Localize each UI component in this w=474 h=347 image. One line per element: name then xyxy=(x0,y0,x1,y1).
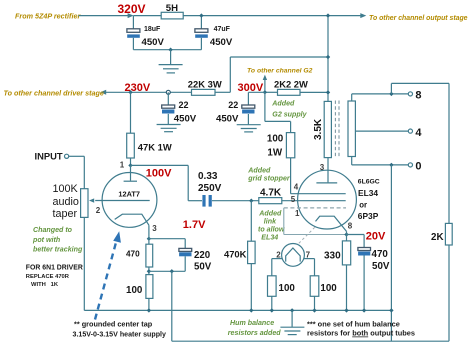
svg-text:100: 100 xyxy=(320,283,337,294)
node junction 22uF takeoff (ring) xyxy=(166,90,170,94)
wire ground rail xyxy=(84,309,391,311)
svg-text:To other channel driver stage: To other channel driver stage xyxy=(4,89,104,98)
svg-text:EL34: EL34 xyxy=(358,188,378,198)
svg-text:4.7K: 4.7K xyxy=(260,187,282,198)
svg-text:100: 100 xyxy=(126,285,143,296)
node junction 47K takeoff xyxy=(128,90,132,94)
wire hum pot left leg xyxy=(272,259,283,276)
svg-text:better tracking: better tracking xyxy=(33,245,83,253)
wire 100 to ground rail xyxy=(148,298,150,310)
tube 12AT7 plate xyxy=(124,165,137,181)
svg-text:resistors added: resistors added xyxy=(228,329,281,337)
label Added G2 supply xyxy=(271,99,307,118)
node junction rail right end xyxy=(389,308,393,312)
svg-text:WITH 1K: WITH 1K xyxy=(31,282,59,288)
svg-text:1: 1 xyxy=(295,209,300,218)
node junction feedback at 8 tap xyxy=(389,92,393,96)
svg-text:EL34: EL34 xyxy=(261,234,278,242)
transformer secondary winding xyxy=(348,101,355,157)
svg-text:22: 22 xyxy=(228,100,238,110)
svg-text:50V: 50V xyxy=(372,261,390,272)
node junction rail hum left xyxy=(270,308,274,312)
capacitor 18uF 450V xyxy=(127,16,165,50)
arrow to other channel G2 xyxy=(263,75,267,93)
svg-text:8: 8 xyxy=(348,222,353,231)
svg-text:3.5K: 3.5K xyxy=(313,118,324,140)
ground below first 22 cap xyxy=(157,125,181,132)
wire 12AT7 plate to coupling cap xyxy=(131,165,203,200)
resistor 470 cathode xyxy=(126,244,153,267)
svg-text:3.15V-0-3.15V heater supply: 3.15V-0-3.15V heater supply xyxy=(73,330,167,338)
wire G2 resistor to pin 4 grid xyxy=(291,158,346,194)
tube 6L6GC plate xyxy=(316,158,337,183)
svg-text:330: 330 xyxy=(324,250,341,261)
note one set of hum balance resistors xyxy=(307,319,415,337)
tube 12AT7 cathode xyxy=(115,214,149,225)
svg-text:taper: taper xyxy=(53,208,78,220)
svg-text:4: 4 xyxy=(415,127,422,139)
svg-text:*** one set of hum balance: *** one set of hum balance xyxy=(307,319,400,328)
wire B+ rail to choke xyxy=(133,15,161,17)
node junction rail 100 xyxy=(147,308,151,312)
label Added grid stopper xyxy=(247,167,291,183)
label FOR 6N1 DRIVER REPLACE 470R WITH 1K xyxy=(26,264,83,287)
tube 6L6GC cathode xyxy=(316,216,347,231)
svg-text:From 5Z4P rectifier: From 5Z4P rectifier xyxy=(15,12,81,21)
capacitor 22 450V first xyxy=(162,92,197,124)
node junction 12AT7 cathode xyxy=(147,237,151,241)
svg-text:** grounded center tap: ** grounded center tap xyxy=(74,319,153,328)
wire hum resistors to rail xyxy=(272,296,315,310)
svg-text:2K: 2K xyxy=(431,232,444,243)
svg-text:3: 3 xyxy=(320,163,325,172)
node junction rail hum right xyxy=(312,308,316,312)
resistor 330 cathode xyxy=(324,241,351,265)
label Changed to pot with better tracking xyxy=(32,226,83,253)
svg-text:audio: audio xyxy=(53,196,79,208)
wire G2 supply feed xyxy=(265,92,291,132)
svg-text:450V: 450V xyxy=(174,113,197,124)
svg-text:5H: 5H xyxy=(166,3,178,14)
wire 2K2 right to B+ riser xyxy=(300,91,328,93)
wire pot bottom to ground rail xyxy=(83,217,85,310)
wire coupling cap to grid node xyxy=(212,200,259,202)
svg-text:450V: 450V xyxy=(142,37,165,48)
svg-text:450V: 450V xyxy=(216,113,239,124)
node junction y57 xyxy=(326,55,330,59)
svg-text:Added: Added xyxy=(258,209,282,217)
svg-text:5: 5 xyxy=(291,195,296,204)
node terminal 0 xyxy=(408,161,421,173)
wire 470 bottom junction xyxy=(148,267,150,275)
svg-text:47uF: 47uF xyxy=(214,26,231,33)
svg-text:100V: 100V xyxy=(146,168,172,180)
node junction 47uF top xyxy=(199,13,203,17)
wire cathode to junction xyxy=(148,225,150,244)
svg-text:or: or xyxy=(359,200,367,209)
svg-text:2: 2 xyxy=(96,206,101,215)
potentiometer hum balance xyxy=(282,244,305,267)
svg-text:50V: 50V xyxy=(194,262,212,273)
svg-text:20V: 20V xyxy=(366,230,386,242)
svg-text:INPUT: INPUT xyxy=(35,150,63,161)
svg-text:G2 supply: G2 supply xyxy=(272,110,307,118)
svg-text:0.33: 0.33 xyxy=(198,171,218,182)
wire secondary top to 8 tap xyxy=(352,94,409,101)
wire feedback bottom loop xyxy=(172,245,449,341)
tube 12AT7 envelope xyxy=(102,173,157,228)
resistor 100 hum balance left xyxy=(268,276,296,297)
transformer primary winding xyxy=(324,101,331,157)
svg-text:To other channel G2: To other channel G2 xyxy=(247,67,313,74)
svg-text:47K 1W: 47K 1W xyxy=(138,141,172,152)
wire secondary bottom to 0 tap xyxy=(352,157,409,165)
svg-text:Added: Added xyxy=(271,99,295,107)
svg-text:100: 100 xyxy=(279,283,296,294)
node junction grid of output tube xyxy=(249,199,253,203)
node junction rail 330 xyxy=(344,308,348,312)
svg-text:450V: 450V xyxy=(210,37,233,48)
wire hum pot right leg xyxy=(303,259,314,276)
tube 6L6GC envelope xyxy=(298,170,357,229)
svg-text:Hum balance: Hum balance xyxy=(230,319,274,327)
svg-text:1.7V: 1.7V xyxy=(183,219,206,231)
node junction 470 bottom xyxy=(147,269,151,273)
ground main filter xyxy=(159,50,183,73)
svg-text:100K: 100K xyxy=(53,183,79,195)
svg-text:470: 470 xyxy=(126,250,140,259)
potentiometer 100K audio taper xyxy=(53,183,89,220)
resistor 100 1W xyxy=(267,133,295,159)
node junction 6L6GC cathode xyxy=(344,232,348,236)
resistor 47K 1W xyxy=(127,133,172,158)
svg-text:pot with: pot with xyxy=(32,236,61,244)
wire secondary mid to 4 tap xyxy=(355,130,408,132)
dashed lead hum pot to tube xyxy=(299,226,316,243)
svg-text:470K: 470K xyxy=(224,249,247,260)
wire B+ vertical drop to transformer xyxy=(327,16,329,102)
wire 300V node to 2K2 xyxy=(265,91,278,93)
svg-text:12AT7: 12AT7 xyxy=(118,189,140,198)
wire 230V rail with arrow to other channel driver stage xyxy=(100,90,191,95)
svg-text:0: 0 xyxy=(415,161,421,173)
svg-text:3: 3 xyxy=(152,224,157,233)
wire 230V to 47K xyxy=(130,92,132,133)
svg-text:1W: 1W xyxy=(267,147,282,158)
svg-text:REPLACE 470R: REPLACE 470R xyxy=(26,274,70,280)
svg-text:to allow: to allow xyxy=(258,225,285,233)
resistor 22K 3W xyxy=(188,79,222,96)
resistor 100 12AT7 cathode xyxy=(126,275,153,299)
node junction 0 tap xyxy=(389,163,393,167)
svg-text:grid stopper: grid stopper xyxy=(247,174,291,182)
transformer core dashed lines xyxy=(335,101,339,159)
node junction rail 470K xyxy=(249,308,253,312)
resistor 2K2 2W xyxy=(274,79,308,96)
ground symbol main rail xyxy=(280,310,304,334)
capacitor 0.33 250V coupling xyxy=(198,171,222,207)
svg-text:To other channel output stage: To other channel output stage xyxy=(369,15,468,22)
capacitor 22 450V second xyxy=(216,92,265,124)
wire grid node down to 470K xyxy=(250,201,252,242)
node junction 12AT7 plate xyxy=(128,163,132,167)
svg-text:320V: 320V xyxy=(118,2,146,16)
tube 6L6GC suppressor grid dashed xyxy=(284,207,346,209)
node junction feedback takeoff xyxy=(170,269,174,273)
capacitor 220 50V bypass xyxy=(149,239,212,273)
wire between filter cap bottoms xyxy=(133,49,201,51)
node junction 300V xyxy=(263,90,267,94)
node terminal 4 xyxy=(408,127,422,139)
ground below second 22 cap xyxy=(237,125,261,132)
node input terminal xyxy=(65,154,69,158)
svg-text:220: 220 xyxy=(194,250,210,261)
node junction 2K2 at B+ riser xyxy=(326,90,330,94)
capacitor 47uF 450V xyxy=(195,16,233,50)
svg-text:8: 8 xyxy=(415,90,421,102)
wire 330 to ground rail xyxy=(346,265,348,311)
node junction rail ground xyxy=(290,308,294,312)
svg-text:2K2 2W: 2K2 2W xyxy=(274,79,308,90)
wire link g3 to cathode xyxy=(284,208,347,235)
svg-text:22: 22 xyxy=(179,100,189,110)
resistor 100 hum balance right xyxy=(310,276,337,297)
svg-text:470: 470 xyxy=(372,249,389,260)
wire 22K right to riser xyxy=(215,91,230,93)
svg-text:6L6GC: 6L6GC xyxy=(358,178,380,185)
label Hum balance resistors added xyxy=(228,319,281,337)
inductor choke 5H xyxy=(161,3,183,19)
svg-text:FOR 6N1 DRIVER: FOR 6N1 DRIVER xyxy=(26,264,83,271)
node junction filter ground xyxy=(168,48,172,52)
resistor 470K xyxy=(224,241,255,263)
node junction B+ drop top xyxy=(326,13,330,17)
svg-text:Added: Added xyxy=(247,167,271,175)
wire 4.7K to pin 5 grid xyxy=(282,200,346,202)
svg-text:1: 1 xyxy=(120,160,125,169)
wire feed to 22K at y57 xyxy=(230,57,328,92)
wire B+ rail after choke to output-stage arrow xyxy=(183,13,366,18)
svg-text:4: 4 xyxy=(294,183,299,192)
label Added link to allow EL34 xyxy=(258,209,285,241)
svg-text:18uF: 18uF xyxy=(144,26,161,33)
resistor 4.7K grid stopper xyxy=(259,187,282,203)
svg-text:250V: 250V xyxy=(198,183,222,194)
wire input to pot xyxy=(69,156,85,188)
label 6L6GC EL34 or 6P3P xyxy=(358,178,380,221)
tube 12AT7 grid wire with wiper arrow xyxy=(89,198,150,202)
wire 47K to plate node xyxy=(130,158,132,165)
svg-text:6P3P: 6P3P xyxy=(358,211,379,221)
svg-text:link: link xyxy=(264,217,277,225)
wire 0 tap down to bottom xyxy=(390,165,392,341)
svg-text:100: 100 xyxy=(267,134,284,145)
svg-text:22K 3W: 22K 3W xyxy=(188,79,222,90)
node junction rail 470 cap xyxy=(362,308,366,312)
wire 470K to ground rail xyxy=(250,264,252,311)
svg-text:Changed to: Changed to xyxy=(33,226,73,234)
arrow dashed heater note pointer xyxy=(95,231,121,319)
resistor 2K feedback xyxy=(431,223,452,245)
wire B+ rail from rectifier with arrowhead xyxy=(79,13,134,18)
wire feedback down from cathode xyxy=(171,271,173,341)
node terminal 8 xyxy=(408,90,421,102)
svg-text:resistors for both output tube: resistors for both output tubes xyxy=(307,329,415,338)
wire cathode to junction xyxy=(346,231,348,241)
wire feedback loop top xyxy=(391,83,449,223)
note grounded center tap heater supply xyxy=(73,319,167,338)
capacitor 470 50V bypass xyxy=(347,235,390,311)
